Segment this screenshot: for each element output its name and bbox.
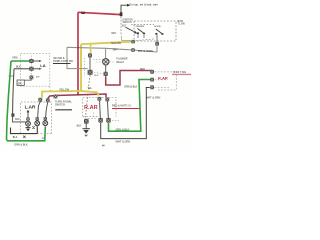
wire crimson flasher output bbox=[106, 71, 152, 86]
connector blob black left bbox=[11, 113, 14, 116]
svg-text:YELLOW: YELLOW bbox=[111, 42, 122, 45]
thin link ignition to yellow connector bbox=[122, 36, 132, 40]
wire gray main bus bbox=[67, 47, 157, 52]
lamp LP3 bbox=[43, 121, 48, 126]
wire horn chain mid bbox=[89, 57, 91, 69]
wire yellow main vertical bbox=[80, 44, 82, 91]
svg-text:R.AR: R.AR bbox=[84, 105, 98, 111]
turn signal switch connector X right bbox=[46, 99, 50, 103]
dashed enclosure around horn chain bbox=[84, 58, 86, 76]
dashed alignment line through connectors bbox=[30, 56, 32, 76]
label underline pink bbox=[172, 73, 191, 75]
svg-text:YELLOW: YELLOW bbox=[59, 88, 70, 91]
wire column B bbox=[107, 102, 110, 118]
wire flasher to connector bbox=[105, 65, 107, 72]
wire red battery feed vertical bbox=[77, 12, 79, 94]
ground under bulb1 bbox=[26, 126, 31, 132]
svg-text:OFF: OFF bbox=[111, 32, 116, 35]
speedometer solid bottom bbox=[11, 126, 38, 133]
connector X speedo feed bbox=[30, 76, 34, 80]
wire green dashed to box bbox=[155, 79, 167, 81]
horn button SW2 bbox=[88, 70, 93, 75]
ignition switch S1 dashed throw line bbox=[131, 24, 154, 26]
connector X crimson right bbox=[150, 70, 154, 74]
svg-text:IGNITION: IGNITION bbox=[123, 20, 134, 22]
wire crimson lower horizontal bbox=[48, 94, 106, 99]
svg-text:WHT & GRN: WHT & GRN bbox=[146, 96, 160, 99]
switch S2 contacts bbox=[137, 32, 139, 34]
svg-text:LA: LA bbox=[40, 63, 45, 68]
connector X column A top bbox=[98, 97, 102, 101]
dashes near ground bbox=[89, 117, 97, 119]
svg-text:SWITCH: SWITCH bbox=[123, 22, 132, 24]
svg-text:GRN & BLK: GRN & BLK bbox=[124, 86, 138, 89]
headlight shell dashed enclosure bbox=[21, 54, 50, 86]
switch S3 blade bbox=[156, 29, 162, 34]
svg-text:TL SW: TL SW bbox=[178, 22, 186, 25]
wire black dashed to box bbox=[155, 86, 170, 88]
wire bulb3 feed bbox=[46, 102, 48, 117]
wire yellow branch to horn chain bbox=[90, 44, 92, 54]
flasher dashed leader left bbox=[96, 61, 103, 63]
wire black stub after connector bbox=[33, 68, 40, 70]
wire horn chain dashed down bbox=[86, 75, 91, 118]
svg-text:R.FR T.SIG: R.FR T.SIG bbox=[174, 71, 187, 74]
wire red battery feed horizontal bbox=[78, 12, 121, 14]
svg-text:HORN: HORN bbox=[154, 26, 161, 28]
svg-text:RELAY: RELAY bbox=[117, 61, 125, 64]
connector X bulb3 bbox=[44, 117, 47, 120]
dashes near bullet connectors bbox=[112, 120, 119, 122]
bullet connector green left bbox=[29, 59, 33, 63]
bullet connector column B bbox=[106, 118, 110, 123]
R.AR dashed box bbox=[83, 97, 116, 116]
node red-gray junction bbox=[77, 47, 79, 49]
svg-text:BLK: BLK bbox=[77, 125, 82, 128]
lamp LP1 bbox=[26, 121, 31, 126]
svg-text:For ign. sw & batt. wire: For ign. sw & batt. wire bbox=[130, 3, 159, 7]
svg-text:GRN & BLK: GRN & BLK bbox=[14, 144, 28, 147]
wire green right rear signal bbox=[109, 80, 151, 132]
speedometer dashed box bbox=[21, 102, 52, 134]
svg-text:SPD: SPD bbox=[18, 84, 23, 86]
svg-text:WINKER: WINKER bbox=[136, 26, 145, 28]
flasher relay branch wire bbox=[105, 48, 107, 58]
svg-text:GRY: GRY bbox=[113, 49, 118, 51]
switch S3 contacts bbox=[155, 33, 157, 35]
wire black to bulb1 bbox=[13, 117, 26, 122]
connector X column B top bbox=[105, 98, 109, 102]
lamp LP2 bbox=[35, 121, 40, 126]
bullet connector black left bbox=[29, 67, 33, 71]
svg-text:L.AR: L.AR bbox=[25, 105, 36, 110]
svg-text:BLK: BLK bbox=[15, 118, 20, 121]
bulb1 stub blob bbox=[27, 111, 29, 113]
frame ground X mark below box bbox=[23, 136, 25, 138]
switch S2 contact stubs bbox=[138, 34, 144, 38]
page mark bbox=[102, 145, 105, 146]
wire black return right bbox=[101, 88, 150, 139]
handlebar switch housing dashed box bbox=[134, 21, 176, 41]
connector X below switch box bbox=[155, 42, 159, 46]
svg-text:WHT & GRN: WHT & GRN bbox=[116, 140, 131, 144]
wire speedo sub box bbox=[24, 78, 31, 81]
svg-text:SWITCH: SWITCH bbox=[55, 104, 65, 107]
wire black left vertical bbox=[13, 69, 14, 114]
wire black left horizontal bbox=[14, 68, 30, 70]
connector X horn top bbox=[88, 53, 92, 57]
svg-text:BLK: BLK bbox=[16, 65, 21, 68]
wire bulb2 feed bbox=[38, 102, 41, 118]
svg-text:BAT & HORN: BAT & HORN bbox=[138, 50, 153, 53]
svg-text:GRN & BLK: GRN & BLK bbox=[116, 128, 130, 132]
switch S2 blade bbox=[138, 29, 144, 34]
flasher dashed leader right bbox=[110, 61, 116, 63]
wire gray left branch down bbox=[67, 47, 88, 68]
connector X green right bbox=[150, 78, 154, 82]
tick mark on left verticals bbox=[9, 75, 15, 76]
label underline bbox=[53, 63, 71, 65]
connector X bulb2 bbox=[36, 117, 39, 120]
svg-text:RED: RED bbox=[140, 69, 145, 71]
wire green left vertical bbox=[7, 61, 46, 141]
ignition switch S1 blade bbox=[126, 27, 135, 31]
wire yellow lower left arm bbox=[42, 91, 81, 98]
bullet connector horn ground bbox=[84, 119, 89, 124]
svg-text:RED & WHT: RED & WHT bbox=[112, 104, 127, 107]
label RED on wire bbox=[81, 12, 85, 14]
wire green stub after connector bbox=[33, 60, 40, 62]
connector X flasher out bbox=[104, 72, 108, 76]
ignition switch S1 dashed stem bbox=[120, 17, 122, 36]
turn signal switch connector X left bbox=[38, 98, 42, 102]
connector X bulb1 bbox=[26, 117, 29, 120]
node battery junction bbox=[120, 12, 123, 16]
svg-text:T.SIG: T.SIG bbox=[126, 105, 132, 108]
switch S3 contact stub bbox=[156, 35, 158, 42]
right signal dashed box bbox=[157, 75, 176, 90]
connector X crimson start bbox=[54, 95, 58, 99]
wire column A bbox=[99, 101, 102, 118]
bulb1 stub bbox=[27, 112, 29, 117]
frame ground X mark bbox=[32, 126, 34, 128]
wire yellow dashed into switch box bbox=[136, 39, 155, 41]
svg-text:GRN: GRN bbox=[12, 57, 18, 60]
svg-text:YEL: YEL bbox=[88, 88, 93, 90]
connector X black right bbox=[150, 85, 154, 89]
ignition switch S1 blade arrowhead bbox=[134, 31, 138, 34]
node red crimson junction bbox=[77, 94, 79, 96]
ground horn chain bbox=[83, 129, 90, 137]
wire to ground bbox=[85, 124, 87, 129]
wire green left horizontal bbox=[11, 60, 30, 62]
connector X yellow to switch bbox=[131, 40, 135, 43]
wire yellow main horizontal bbox=[81, 42, 133, 45]
dashed bottom right part bbox=[37, 133, 51, 135]
svg-text:R.AR: R.AR bbox=[158, 76, 168, 81]
svg-text:BLK: BLK bbox=[94, 75, 99, 77]
wire to ignition switch arrow bbox=[121, 5, 128, 13]
flasher relay U1 bbox=[103, 59, 109, 65]
svg-text:BLK: BLK bbox=[13, 136, 18, 139]
bullet connector column A bbox=[98, 118, 102, 123]
wire crimson dashed to right signal bbox=[155, 71, 176, 73]
tick near green upturn bbox=[42, 137, 44, 139]
svg-text:HORN CONT SW: HORN CONT SW bbox=[53, 60, 73, 63]
arrowhead to ignition switch bbox=[127, 4, 131, 7]
label underline turn signal switch bbox=[55, 109, 72, 111]
wire yellow lower right arm bbox=[81, 91, 99, 96]
red underline bbox=[112, 108, 140, 110]
leader dashes to switch bbox=[49, 87, 52, 91]
wire gray up to switch box bbox=[156, 46, 158, 52]
connector X gray mid bbox=[131, 48, 135, 51]
